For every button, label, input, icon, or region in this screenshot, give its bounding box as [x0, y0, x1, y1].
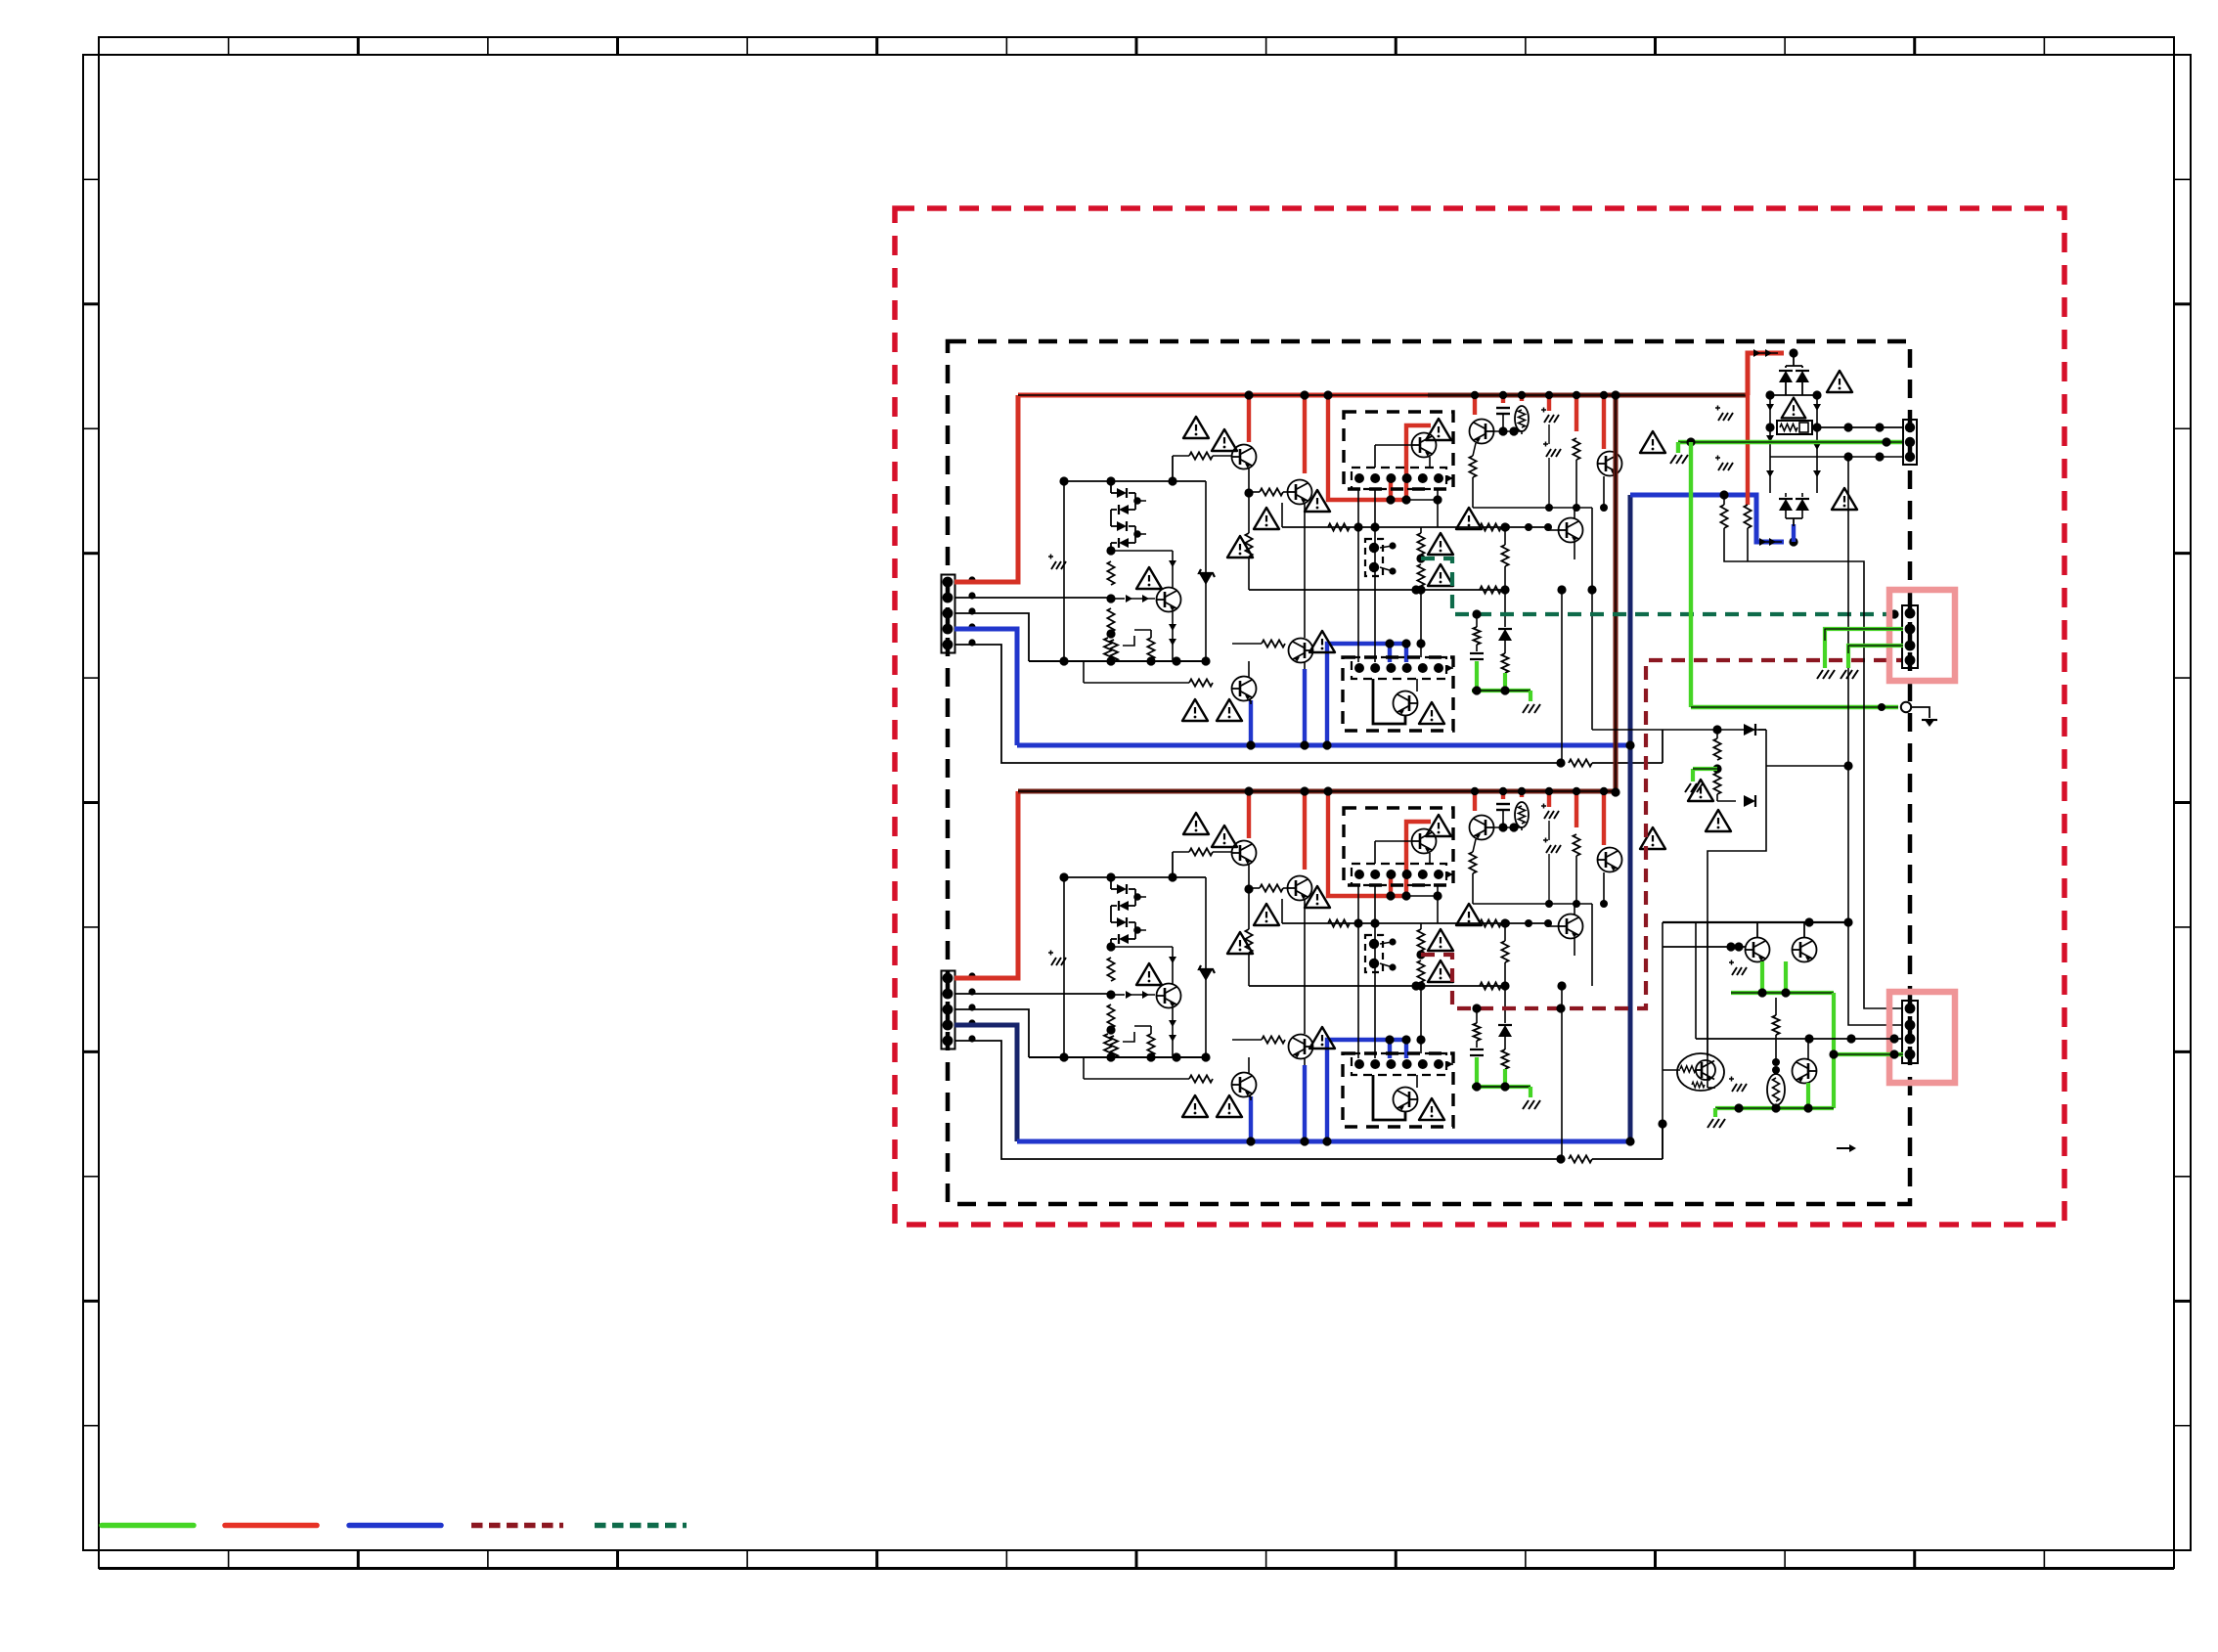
wire to lower pink connector pin1 [1724, 528, 1903, 1008]
optocoupler U1 dashed box (channel 2) [1344, 808, 1453, 885]
transistor Q8 snubber (channel 1) [1559, 518, 1583, 543]
capacitor C1 polarized to ground (channel 1) [1048, 556, 1053, 558]
wire red stubs snubber (channel 1) [1473, 395, 1477, 415]
resistor R30 [1723, 495, 1725, 505]
wire green Q21 emitter [1784, 961, 1788, 993]
wire green to ground (channel 2) [1529, 1087, 1532, 1097]
diode limiter stack D1-D4 (channel 2) [1106, 872, 1115, 881]
node green tap mid [1712, 764, 1721, 773]
warning triangles (channel 1) [1183, 417, 1209, 438]
wire black link pin6 U1 (channel 2) [1406, 895, 1438, 897]
transistor Q1 (channel 1) [1232, 445, 1257, 469]
resistor R31 [1744, 505, 1751, 528]
wire green output col2 (channel 1) [1503, 673, 1507, 691]
transistor Q23 [1793, 1059, 1817, 1084]
wire vertical feedback (channel 2) [1561, 986, 1563, 1159]
capacitor C7 output (channel 2) [1476, 1041, 1478, 1048]
transistor Q3 (channel 2) [1232, 1073, 1257, 1097]
border frame bottom ruler band [99, 1550, 2174, 1568]
optocoupler U2 dashed box (channel 1) [1343, 657, 1453, 731]
wire to connector pin3 top right [1770, 456, 1903, 458]
warning triangle rectifier mid [1782, 398, 1806, 419]
diode cluster mid right [1592, 729, 1766, 731]
rectifier bottom pair diodes D12 D13 [1779, 499, 1793, 511]
capacitor C7 output (channel 1) [1476, 645, 1478, 651]
wire blue branch to optocoupler U2 (channel 1) [1327, 644, 1406, 745]
open terminal circle [1901, 702, 1911, 712]
pink highlight box CN4 [1889, 590, 1955, 681]
warning triangles (channel 2) [1183, 813, 1209, 834]
wire green to ground [1713, 1108, 1717, 1117]
thermal fuse F1 with resistor [1777, 421, 1812, 434]
regulator bottom rail (channel 1) [1029, 660, 1206, 662]
wire vertical left1 [1662, 922, 1663, 1159]
ground CN4 pin2 [1817, 670, 1823, 679]
transistor Q9 inside U2 (channel 2) [1394, 1088, 1418, 1112]
diode D5 output (channel 2) [1504, 986, 1506, 1023]
wire dark red link channel buses [1614, 395, 1619, 792]
resistor R17 output (channel 1) [1476, 614, 1478, 627]
wire red stub to Q1 (channel 1) [1247, 395, 1251, 442]
wire red feed to optocoupler U1 (channel 2) [1328, 791, 1406, 896]
black dashed enclosure box [948, 341, 1910, 1204]
resistor R15 divider (channel 1) [1420, 527, 1422, 533]
flow arrow [1837, 1147, 1852, 1149]
wire green output main [1678, 440, 1903, 444]
border frame left ruler band [83, 55, 99, 1550]
resistor R20 on return rail (channel 1) [1569, 759, 1592, 766]
resistor R3 (channel 2) [1147, 1034, 1154, 1055]
rectifier mid rail top [1770, 394, 1817, 396]
wire vertical feedback (channel 1) [1561, 590, 1563, 763]
wire cluster to vertical [1766, 765, 1848, 767]
resistor R1 (channel 1) [1107, 561, 1114, 585]
capacitor C10 polarized [1715, 407, 1720, 409]
digital transistor Q22 [1677, 1053, 1724, 1091]
resistor R40 [1772, 1015, 1779, 1035]
transistor Q2 (channel 2) [1288, 876, 1312, 901]
wire vertical optocoupler link 2 (channel 2) [1374, 885, 1376, 1058]
legend wire sample red [225, 1523, 317, 1529]
resistor R3 (channel 1) [1147, 638, 1154, 659]
node dark feed (channel 1) [1416, 554, 1425, 562]
ground output (channel 2) [1523, 1100, 1529, 1109]
resistor R14 (channel 1) [1480, 586, 1501, 593]
coil L1 (channel 1) [1515, 406, 1529, 431]
wire black from pin3 (channel 2) [954, 1009, 1029, 1057]
wire black link pin6 U1 (channel 1) [1406, 499, 1438, 501]
jumper J1 two pin (channel 2) [1365, 935, 1383, 972]
wire green output col1 (channel 2) [1475, 1057, 1479, 1087]
wire green CN4 pin3 [1848, 646, 1903, 668]
ground green tap [1670, 455, 1676, 464]
diode D15 [1744, 795, 1755, 807]
wire green CN4 pin2 [1825, 629, 1903, 668]
wire black from pin3 (channel 1) [954, 613, 1029, 661]
rail R bottom (channel 2) [1249, 985, 1505, 987]
capacitor C20 polarized [1729, 961, 1734, 963]
transistor Q2 (channel 1) [1288, 480, 1312, 505]
ground bottom cluster [1708, 1119, 1713, 1128]
trimmer RV1 (channel 1) [1104, 638, 1112, 659]
diode D5 output (channel 1) [1504, 590, 1506, 627]
border frame right ruler band [2174, 55, 2191, 1550]
wire vertical optocoupler link 1 (channel 2) [1357, 885, 1359, 1058]
emitter chain Q7 (channel 1) [1473, 443, 1476, 456]
border frame top ruler band [99, 37, 2174, 55]
rail R top (channel 2) [1282, 922, 1548, 924]
pink highlight box CN5 [1889, 992, 1955, 1083]
transistor Q3 (channel 1) [1232, 677, 1257, 701]
wire black from pin2 (channel 2) [954, 993, 1111, 995]
wire green long vertical [1689, 442, 1693, 707]
capacitor C4 (channel 1) [1496, 407, 1510, 409]
resistor R32 [1713, 738, 1720, 760]
wire blue bus (channel 2) [1017, 1139, 1630, 1144]
zener diode ZD1 (channel 1) [1205, 481, 1207, 661]
capacitor C11 polarized [1715, 457, 1720, 459]
wire green output bus (channel 1) [1472, 689, 1530, 692]
warning triangle rectifier bottom [1832, 488, 1857, 510]
node dark feed (channel 2) [1416, 950, 1425, 959]
diode limiter stack D1-D4 (channel 1) [1106, 476, 1115, 485]
wire dark red dashed feedback net [1421, 660, 1903, 1008]
wire green emitter bus [1731, 991, 1834, 995]
wire vertical left2 [1707, 922, 1708, 1056]
warning triangle rectifier top [1827, 371, 1852, 392]
resistor R20 on return rail (channel 2) [1569, 1155, 1592, 1162]
capacitor C21 polarized [1729, 1078, 1734, 1080]
wire green Q20 emitter [1760, 961, 1764, 993]
resistor R19 inter-rail (channel 1) [1504, 527, 1506, 545]
jumper J1 two pin (channel 1) [1365, 539, 1383, 576]
transistor Q7 snubber (channel 2) [1470, 816, 1494, 840]
wire black from pin2 (channel 1) [954, 597, 1111, 599]
capacitor C1 polarized to ground (channel 2) [1048, 952, 1053, 954]
transistor Q4 (channel 2) [1289, 1035, 1313, 1059]
wire vertical optocoupler link 1 (channel 1) [1357, 489, 1359, 662]
wire blue branch to optocoupler U2 (channel 2) [1327, 1040, 1406, 1141]
transistor Q8 snubber (channel 2) [1559, 915, 1583, 939]
resistor R33 [1713, 773, 1720, 794]
resistor R2 (channel 2) [1107, 1005, 1114, 1028]
ground mid [1685, 783, 1691, 792]
wire divider to U2 pin5 (channel 2) [1420, 986, 1422, 1053]
wire red jog to rectifier [1748, 353, 1784, 395]
emitter chain Q7 (channel 2) [1473, 839, 1476, 852]
wire green bottom bus to chassis [1691, 705, 1898, 709]
optocoupler U1 dashed box (channel 1) [1344, 412, 1453, 489]
wire red bus (channel 2) [1018, 789, 1616, 794]
resistor R13b (channel 2) [1328, 919, 1350, 926]
connector CN4 [1902, 605, 1918, 668]
warning triangle mid cluster 1 [1688, 780, 1713, 801]
transistor Q6 inside U1 (channel 1) [1412, 433, 1437, 458]
thermistor TH1 [1767, 1074, 1785, 1105]
IC pin strip U2 (channel 1) [1352, 657, 1446, 679]
wire blue return from connector (channel 1) [954, 629, 1017, 745]
resistor R19 inter-rail (channel 2) [1504, 923, 1506, 941]
legend wire sample dark red dashed [471, 1523, 563, 1529]
resistor R15 divider (channel 2) [1420, 923, 1422, 929]
resistor R11 (channel 1) [1573, 438, 1579, 460]
rail mid bottom-right cluster [1696, 1038, 1894, 1040]
wire blue jog to rectifier [1630, 495, 1784, 542]
wire dark green dashed feedback net [1421, 558, 1903, 614]
wire base rail Q20 [1663, 946, 1746, 948]
wire green output col1 (channel 1) [1475, 661, 1479, 691]
resistor R4 (channel 2) [1245, 929, 1252, 953]
transistor Q6 inside U1 (channel 2) [1412, 829, 1437, 854]
rail top bottom-right cluster [1663, 921, 1848, 923]
resistor R13b (channel 1) [1328, 523, 1350, 530]
resistor R16 divider (channel 2) [1417, 960, 1424, 982]
IC pin strip U1 (channel 1) [1352, 468, 1446, 489]
red dashed enclosure box [895, 208, 2064, 1225]
coil L1 (channel 2) [1515, 802, 1529, 827]
base rail Q7 (channel 2) [1494, 826, 1522, 828]
snubber bottom rail (channel 1) [1473, 507, 1592, 509]
legend wire sample dark green dashed [595, 1523, 687, 1529]
trimmer RV1 (channel 2) [1104, 1034, 1112, 1055]
wire green tap mid [1693, 767, 1717, 771]
wire green to CN5 pin4 [1834, 1052, 1903, 1056]
wire green output bus (channel 2) [1472, 1085, 1530, 1089]
wire red stub to Q2 (channel 2) [1303, 791, 1307, 870]
transistor Q5 regulator (channel 1) [1157, 588, 1181, 612]
connector CN left (channel 1) [942, 575, 955, 653]
node B regulator (channel 1) [1106, 594, 1115, 603]
wire red supply from connector (channel 2) [954, 791, 1018, 978]
connector CN5 [1902, 1001, 1918, 1063]
connector CN3 top right [1903, 420, 1917, 465]
wire vertical optocoupler link 2 (channel 1) [1374, 489, 1376, 662]
node A regulator (channel 2) [1106, 942, 1115, 951]
wire green ground bus [1715, 1106, 1834, 1110]
resistor R1 (channel 2) [1107, 958, 1114, 981]
transistor Q5 regulator (channel 2) [1157, 984, 1181, 1008]
wire blue bus (channel 1) [1017, 743, 1630, 748]
wire red stub to Q1 (channel 2) [1247, 791, 1251, 838]
wire black from pin5 (channel 1) [954, 645, 1561, 763]
wire red bus (channel 1) [1018, 393, 1428, 398]
IC pin strip U1 (channel 2) [1352, 864, 1446, 885]
wire black from pin5 (channel 2) [954, 1041, 1561, 1159]
wire green Q23 emitter [1806, 1083, 1810, 1108]
node B regulator (channel 2) [1106, 990, 1115, 999]
resistor R4 (channel 1) [1245, 533, 1252, 557]
transistor Q10 snubber (channel 2) [1598, 848, 1622, 872]
resistor R16 divider (channel 1) [1417, 564, 1424, 586]
transistor Q21 [1793, 938, 1817, 962]
transistor Q20 [1746, 938, 1770, 962]
wire red stubs snubber (channel 2) [1473, 791, 1477, 811]
resistor R13 (channel 1) [1480, 523, 1501, 530]
transistor Q9 inside U2 (channel 1) [1394, 692, 1418, 716]
capacitor C5 polarized (channel 1) [1541, 409, 1546, 411]
legend wire sample green [102, 1523, 194, 1529]
wire blue riser Q4 (channel 1) [1303, 669, 1307, 745]
wire blue return from connector (channel 2) [954, 1025, 1017, 1141]
transistor Q4 (channel 1) [1289, 639, 1313, 663]
wire cluster step down [1708, 801, 1766, 922]
snubber bottom rail (channel 2) [1473, 903, 1592, 905]
regulator bottom rail (channel 2) [1029, 1056, 1206, 1058]
wire blue riser Q4 (channel 2) [1303, 1065, 1307, 1141]
optocoupler U2 dashed box (channel 2) [1343, 1053, 1453, 1127]
wire green to ground (channel 1) [1529, 691, 1532, 701]
resistor R2 (channel 1) [1107, 608, 1114, 632]
resistor R14 (channel 2) [1480, 982, 1501, 989]
chassis ground [1911, 707, 1930, 718]
resistor R11 (channel 2) [1573, 834, 1579, 856]
node rail regulator top (channel 2) [1064, 876, 1206, 878]
resistor R18 output (channel 1) [1504, 641, 1506, 653]
transistor Q1 (channel 2) [1232, 841, 1257, 866]
wire vertical to diode cluster (channel 1) [1591, 590, 1593, 730]
ground CN4 pin3 [1841, 670, 1846, 679]
transistor Q7 snubber (channel 1) [1470, 420, 1494, 444]
base rail Q7 (channel 1) [1494, 430, 1522, 432]
node A regulator (channel 1) [1106, 546, 1115, 555]
resistor R18 output (channel 2) [1504, 1037, 1506, 1049]
IC pin strip U2 (channel 2) [1352, 1053, 1446, 1075]
ground output (channel 1) [1523, 704, 1529, 713]
capacitor C5 polarized (channel 2) [1541, 805, 1546, 807]
legend wire sample blue [349, 1523, 441, 1529]
wire blue riser Q3 (channel 2) [1249, 1096, 1253, 1141]
connector CN left (channel 2) [942, 971, 955, 1049]
resistor R13 (channel 2) [1480, 919, 1501, 926]
wire green output col2 (channel 2) [1503, 1069, 1507, 1087]
wire long vertical to pin2 [1848, 457, 1903, 1025]
wire red stub to Q2 (channel 1) [1303, 395, 1307, 473]
capacitor C4 (channel 2) [1496, 803, 1510, 805]
warning triangle mid cluster 2 [1706, 810, 1731, 831]
wire red supply from connector (channel 1) [954, 395, 1018, 582]
transistor Q10 snubber (channel 1) [1598, 452, 1622, 476]
wire red feed to optocoupler U1 (channel 1) [1328, 395, 1406, 500]
wire navy bus vertical [1628, 495, 1633, 1141]
resistor R17 output (channel 2) [1476, 1010, 1478, 1023]
node rail regulator top (channel 1) [1064, 480, 1206, 482]
wire divider to U2 pin5 (channel 1) [1420, 590, 1422, 657]
rail R bottom (channel 1) [1249, 589, 1505, 591]
zener diode ZD1 (channel 2) [1205, 877, 1207, 1057]
wire green down right [1832, 993, 1836, 1108]
rectifier top pair diodes D10 D11 [1793, 353, 1795, 366]
rail R top (channel 1) [1282, 526, 1548, 528]
wire to connector pin1 top right [1817, 426, 1903, 428]
wire blue riser Q3 (channel 1) [1249, 700, 1253, 745]
